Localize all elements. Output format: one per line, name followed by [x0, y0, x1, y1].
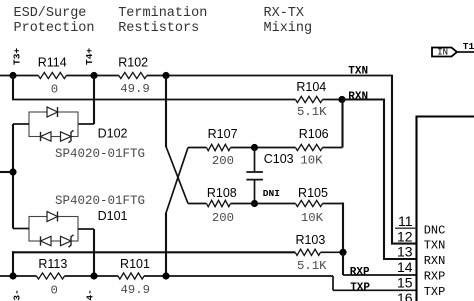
- connector J1 body: [415, 116, 417, 301]
- svg-text:R103: R103: [295, 233, 325, 247]
- svg-text:0: 0: [51, 283, 58, 297]
- svg-text:TXN: TXN: [348, 65, 368, 77]
- wire D101 left to common vertical: [13, 228, 29, 230]
- svg-text:11: 11: [398, 213, 413, 229]
- svg-text:49.9: 49.9: [121, 283, 151, 297]
- wire crossover diagonal lower-left to upper-right: [166, 148, 188, 214]
- svg-text:Restistors: Restistors: [118, 21, 199, 36]
- wire crossover to R108: [188, 203, 207, 205]
- resistor R108: [207, 200, 231, 206]
- svg-text:5.1K: 5.1K: [297, 259, 327, 273]
- svg-text:TXN: TXN: [424, 239, 446, 253]
- wire R107 to C103 node: [231, 147, 255, 149]
- wire TXN vertical down to pin 12: [391, 75, 393, 244]
- wire crossover to R107: [188, 147, 207, 149]
- svg-text:T4+: T4+: [84, 48, 95, 65]
- svg-text:RXP: RXP: [350, 266, 370, 278]
- TVS diode array D102: [29, 112, 78, 137]
- svg-text:R114: R114: [38, 55, 67, 69]
- wire R103 to RXP node: [321, 251, 344, 253]
- svg-text:IN: IN: [437, 47, 448, 57]
- svg-text:R106: R106: [299, 127, 329, 141]
- svg-text:R107: R107: [208, 127, 238, 141]
- svg-text:5.1K: 5.1K: [297, 105, 327, 119]
- wire long RXP row from bottom-left riser to R103: [12, 251, 14, 276]
- port IN: [432, 48, 457, 57]
- svg-text:R104: R104: [296, 80, 326, 94]
- node C103 bottom junction: [251, 200, 258, 207]
- node RXN junction: [338, 96, 345, 103]
- node bottom rail crossover junction: [162, 272, 169, 279]
- wire D102 left to common vertical: [13, 123, 29, 125]
- wire T4+ vertical down to D102: [93, 76, 95, 125]
- svg-text:TXP: TXP: [350, 282, 370, 294]
- svg-text:10K: 10K: [301, 211, 324, 225]
- wire from IN port to edge: [457, 51, 474, 53]
- node T4+ junction: [90, 72, 97, 79]
- wire top rail between R114 and R102: [66, 75, 119, 77]
- svg-text:R102: R102: [118, 55, 148, 69]
- node T4- junction bottom: [90, 272, 97, 279]
- node T3- junction bottom-left: [9, 272, 16, 279]
- wire TXP to pin 15: [332, 276, 334, 290]
- svg-text:DNI: DNI: [263, 188, 280, 199]
- resistor R114: [38, 72, 66, 78]
- svg-text:C103: C103: [264, 152, 294, 166]
- wire top rail left segment: [0, 75, 38, 77]
- resistor R106: [296, 144, 323, 150]
- svg-text:T3-: T3-: [12, 289, 23, 301]
- svg-text:D102: D102: [98, 127, 128, 141]
- svg-text:Protection: Protection: [14, 21, 95, 36]
- wire RXP node to pin 14: [342, 252, 344, 275]
- svg-text:TXP: TXP: [424, 285, 446, 299]
- svg-text:RXP: RXP: [424, 270, 446, 284]
- svg-text:0: 0: [51, 82, 58, 96]
- svg-text:R113: R113: [38, 257, 67, 271]
- node C103 top junction: [251, 144, 258, 151]
- svg-text:T1A: T1A: [463, 41, 474, 52]
- wire crossover diagonal upper-left to lower-right: [166, 147, 188, 204]
- svg-text:T3+: T3+: [12, 48, 23, 65]
- svg-text:ESD/Surge: ESD/Surge: [14, 6, 87, 21]
- resistor R103: [295, 249, 320, 255]
- capacitor C103: [254, 148, 256, 172]
- wire D101 right to T4- vertical: [78, 228, 94, 230]
- wire from left edge to common node: [0, 171, 13, 173]
- wire R106 to C103 node: [255, 147, 296, 149]
- resistor R105: [296, 200, 323, 206]
- wire C103 node to R105: [255, 203, 296, 205]
- svg-text:12: 12: [397, 228, 413, 244]
- svg-text:Termination: Termination: [118, 6, 207, 21]
- node common net junction to left edge: [9, 168, 16, 175]
- node RXP junction: [339, 249, 346, 256]
- wire bottom rail left segment: [0, 275, 37, 277]
- svg-text:200: 200: [212, 154, 234, 168]
- resistor R102: [119, 72, 147, 78]
- wire bottom rail to TXP corner: [144, 275, 333, 277]
- resistor R104: [296, 96, 323, 102]
- node top rail junction to crossover: [162, 72, 169, 79]
- wire vertical from crossover to bottom rail: [165, 213, 167, 277]
- svg-text:RXN: RXN: [424, 254, 446, 268]
- svg-text:13: 13: [397, 244, 413, 260]
- wire vertical from top rail to crossover: [165, 76, 167, 148]
- wire RXN to pin 13: [342, 98, 384, 100]
- wire bottom rail between R113 and R101: [65, 275, 119, 277]
- wire R105 to RXP vertical: [323, 203, 344, 205]
- svg-text:15: 15: [397, 275, 413, 291]
- TVS diode array D101: [29, 217, 78, 242]
- svg-text:10K: 10K: [300, 154, 323, 168]
- svg-text:Mixing: Mixing: [264, 21, 313, 36]
- svg-text:RX-TX: RX-TX: [264, 6, 305, 21]
- svg-text:RXN: RXN: [348, 91, 368, 103]
- svg-text:R108: R108: [207, 186, 237, 200]
- wire R104 to RXN node: [323, 99, 343, 101]
- svg-text:SP4020-01FTG: SP4020-01FTG: [55, 147, 145, 161]
- resistor R101: [118, 273, 144, 279]
- resistor R113: [37, 273, 65, 279]
- svg-text:49.9: 49.9: [120, 82, 150, 96]
- svg-text:R101: R101: [120, 257, 150, 271]
- pin 11 stub: [395, 227, 417, 229]
- wire RXN node down to R106: [341, 100, 343, 148]
- svg-text:SP4020-01FTG: SP4020-01FTG: [55, 194, 145, 208]
- wire from T3+ down and right to R104: [12, 75, 14, 100]
- node T3+ junction top-left: [9, 72, 16, 79]
- svg-text:DNC: DNC: [424, 223, 446, 237]
- wire top rail right segment to TXN corner: [147, 75, 392, 77]
- svg-text:14: 14: [397, 259, 413, 275]
- svg-text:200: 200: [212, 211, 234, 225]
- svg-text:T4-: T4-: [85, 289, 96, 301]
- wire R108 to C103 bottom node: [231, 203, 255, 205]
- resistor R107: [207, 144, 231, 150]
- svg-text:D101: D101: [98, 209, 128, 223]
- svg-text:R105: R105: [298, 186, 328, 200]
- svg-text:16: 16: [397, 290, 413, 301]
